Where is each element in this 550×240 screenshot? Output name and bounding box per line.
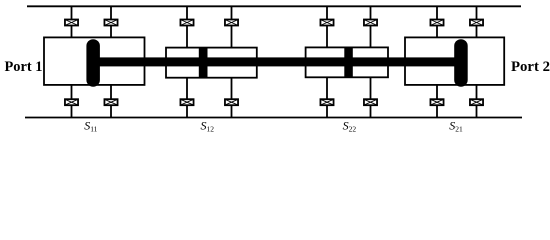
pad: top crossed box 8 [470,20,483,26]
wire: bottom stub 4 [231,77,233,118]
svg-text:S11: S11 [84,119,97,134]
wire: bottom stub 7 [436,84,438,118]
pad: bottom crossed box 4 [225,99,238,105]
wire: bottom stub 5 [326,77,328,118]
wire: top stub 5 [326,6,328,49]
pad: bottom crossed box 2 [104,99,117,105]
svg-text:S22: S22 [343,119,357,134]
coupling box S22 [306,47,388,77]
pad: bottom crossed box 3 [180,99,193,105]
pad: bottom crossed box 8 [470,99,483,105]
svg-text:Port 1: Port 1 [5,59,43,75]
pad: bottom crossed box 7 [430,99,443,105]
pad: top crossed box 2 [104,20,117,26]
pad: top crossed box 6 [364,20,377,26]
pad: top crossed box 7 [430,20,443,26]
main transmission bar [93,57,461,66]
wire: top stub 6 [370,6,372,49]
wire: bottom stub 6 [370,77,372,118]
electrode capsule right [454,39,468,86]
electrode capsule left [86,39,100,86]
pad: top crossed box 4 [225,20,238,26]
wire: top stub 2 [110,6,112,38]
resonator box port 1 [44,37,145,85]
electrode bar in S12 box [199,47,208,78]
wire: top stub 7 [436,6,438,38]
wire: top stub 4 [231,6,233,49]
top bus line [27,5,521,7]
pad: bottom crossed box 1 [65,99,78,105]
wire: bottom stub 8 [476,84,478,118]
wire: bottom stub 3 [186,77,188,118]
electrode bar in S22 box [344,47,353,78]
wire: top stub 8 [476,6,478,38]
pad: top crossed box 1 [65,20,78,26]
coupling box S12 [166,48,257,78]
svg-text:Port 2: Port 2 [511,59,550,75]
wire: bottom stub 2 [110,84,112,118]
pad: bottom crossed box 6 [364,99,377,105]
bottom bus line [25,117,522,119]
wire: top stub 1 [71,6,73,38]
svg-text:S21: S21 [449,119,463,134]
wire: bottom stub 1 [71,84,73,118]
pad: bottom crossed box 5 [320,99,333,105]
resonator box port 2 [405,37,504,85]
pad: top crossed box 5 [320,20,333,26]
svg-text:S12: S12 [201,119,215,134]
wire: top stub 3 [186,6,188,49]
pad: top crossed box 3 [180,20,193,26]
